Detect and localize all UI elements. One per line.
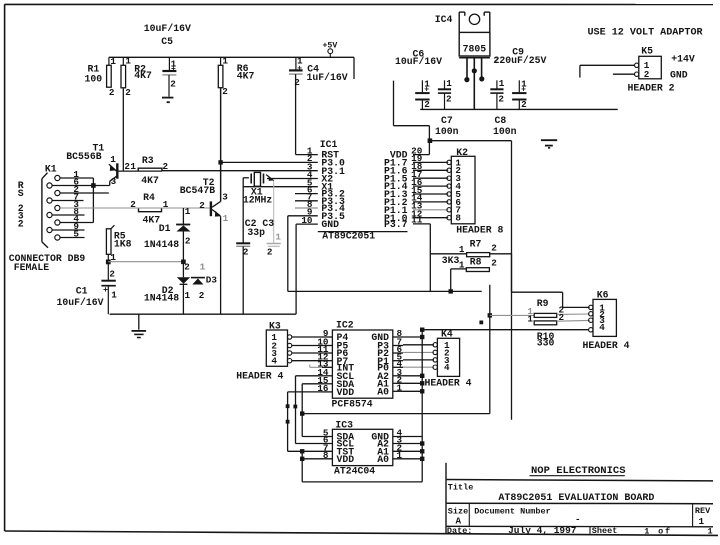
svg-text:Sheet: Sheet	[592, 526, 618, 536]
svg-text:4: 4	[444, 362, 450, 373]
svg-text:2: 2	[109, 268, 115, 279]
svg-text:Title: Title	[448, 482, 474, 492]
svg-text:1uF/16V: 1uF/16V	[307, 72, 348, 83]
svg-text:S: S	[18, 188, 24, 199]
svg-text:2: 2	[109, 87, 115, 98]
svg-text:10uF/16V: 10uF/16V	[395, 56, 442, 67]
svg-text:+: +	[171, 65, 176, 74]
svg-text:+: +	[521, 86, 526, 95]
svg-text:FEMALE: FEMALE	[14, 262, 49, 273]
svg-text:1: 1	[223, 213, 229, 224]
svg-text:R3: R3	[142, 155, 154, 166]
svg-text:100n: 100n	[435, 126, 459, 137]
svg-text:33p: 33p	[247, 227, 265, 238]
svg-text:1: 1	[125, 56, 131, 67]
svg-text:HEADER 4: HEADER 4	[236, 370, 283, 381]
svg-text:3K3: 3K3	[442, 255, 460, 266]
svg-text:1N4148: 1N4148	[144, 293, 179, 304]
svg-text:1: 1	[699, 516, 705, 527]
svg-text:2: 2	[491, 257, 497, 268]
svg-text:4: 4	[599, 322, 605, 333]
svg-text:3: 3	[111, 176, 117, 187]
svg-text:July 4, 1997: July 4, 1997	[508, 525, 577, 536]
svg-text:1: 1	[163, 199, 169, 210]
svg-text:2: 2	[424, 99, 430, 110]
svg-text:100n: 100n	[493, 126, 517, 137]
svg-text:HEADER 2: HEADER 2	[628, 83, 675, 94]
svg-text:2: 2	[125, 87, 131, 98]
svg-text:2: 2	[644, 69, 650, 80]
svg-text:4K7: 4K7	[134, 70, 152, 81]
svg-text:220uF/25V: 220uF/25V	[494, 55, 547, 66]
svg-text:2: 2	[222, 86, 228, 97]
svg-text:HEADER 4: HEADER 4	[425, 377, 472, 388]
svg-text:1: 1	[200, 261, 206, 272]
svg-text:Document Number: Document Number	[474, 506, 551, 516]
svg-text:BC547B: BC547B	[180, 185, 215, 196]
svg-text:PCF8574: PCF8574	[332, 399, 373, 410]
svg-text:R9: R9	[537, 298, 549, 309]
svg-text:R4: R4	[143, 192, 155, 203]
svg-text:2: 2	[521, 99, 527, 110]
svg-text:P3.7: P3.7	[384, 219, 408, 230]
svg-text:VDD: VDD	[337, 387, 355, 398]
svg-text:12MHz: 12MHz	[243, 195, 273, 206]
svg-text:7805: 7805	[463, 44, 487, 55]
svg-text:AT89C2051 EVALUATION BOARD: AT89C2051 EVALUATION BOARD	[498, 493, 654, 504]
svg-text:1 of: 1 of	[644, 526, 672, 536]
svg-text:2: 2	[130, 199, 136, 210]
svg-text:1: 1	[446, 78, 452, 89]
svg-text:-: -	[575, 514, 581, 525]
svg-text:IC1: IC1	[320, 139, 338, 150]
svg-text:2: 2	[243, 247, 249, 258]
svg-text:10uF/16V: 10uF/16V	[57, 297, 104, 308]
svg-text:2: 2	[163, 161, 169, 172]
svg-text:K3: K3	[269, 321, 281, 332]
svg-text:100: 100	[85, 74, 103, 85]
svg-text:K4: K4	[441, 329, 453, 340]
svg-text:VDD: VDD	[337, 454, 355, 465]
svg-text:A: A	[456, 515, 462, 526]
svg-text:C1: C1	[76, 286, 88, 297]
svg-text:R7: R7	[470, 238, 482, 249]
svg-text:2: 2	[491, 243, 497, 254]
svg-text:1: 1	[222, 56, 228, 67]
svg-text:GND: GND	[670, 70, 688, 81]
svg-text:REV: REV	[695, 506, 711, 516]
svg-text:2: 2	[184, 261, 190, 272]
svg-text:A0: A0	[377, 454, 389, 465]
svg-text:1K8: 1K8	[114, 238, 132, 249]
svg-text:2: 2	[267, 247, 273, 258]
svg-text:C7: C7	[441, 115, 453, 126]
svg-text:2: 2	[199, 200, 205, 211]
svg-text:1: 1	[111, 290, 117, 301]
svg-text:K6: K6	[597, 290, 609, 301]
svg-text:1: 1	[275, 231, 281, 242]
svg-text:C5: C5	[161, 36, 173, 47]
svg-text:HEADER 4: HEADER 4	[583, 340, 630, 351]
svg-text:2: 2	[18, 218, 24, 229]
svg-text:1: 1	[185, 290, 191, 301]
svg-text:3: 3	[222, 192, 228, 203]
svg-text:2: 2	[170, 79, 176, 90]
svg-text:1: 1	[459, 259, 465, 270]
svg-text:GND: GND	[321, 219, 339, 230]
svg-text:2: 2	[446, 93, 452, 104]
svg-text:1: 1	[527, 314, 533, 325]
svg-text:2: 2	[185, 236, 191, 247]
svg-text:D1: D1	[159, 223, 171, 234]
svg-text:A0: A0	[377, 386, 389, 397]
svg-text:4K7: 4K7	[143, 214, 161, 225]
svg-text:C8: C8	[495, 115, 507, 126]
svg-text:+: +	[103, 285, 108, 295]
svg-text:4K7: 4K7	[141, 175, 159, 186]
svg-text:1: 1	[708, 526, 713, 536]
svg-text:IC2: IC2	[336, 319, 354, 330]
svg-text:2: 2	[199, 290, 205, 301]
svg-text:AT24C04: AT24C04	[334, 465, 375, 476]
svg-text:330: 330	[537, 338, 555, 349]
svg-text:1: 1	[185, 206, 191, 217]
svg-text:1: 1	[110, 56, 116, 67]
svg-text:R8: R8	[470, 257, 482, 268]
svg-text:IC4: IC4	[435, 14, 453, 25]
svg-text:+5V: +5V	[323, 42, 338, 51]
svg-text:10uF/16V: 10uF/16V	[144, 23, 191, 34]
svg-text:2: 2	[559, 312, 565, 323]
svg-text:1N4148: 1N4148	[144, 239, 179, 250]
svg-text:2: 2	[498, 93, 504, 104]
svg-text:AT89C2051: AT89C2051	[322, 231, 375, 242]
svg-text:4: 4	[271, 356, 277, 367]
svg-text:BC556B: BC556B	[66, 151, 101, 162]
svg-text:4K7: 4K7	[237, 71, 255, 82]
svg-text:+14V: +14V	[671, 54, 695, 65]
svg-text:K5: K5	[641, 46, 653, 57]
svg-text:HEADER 8: HEADER 8	[456, 224, 503, 235]
svg-text:IC3: IC3	[335, 420, 353, 431]
svg-text:8: 8	[455, 213, 461, 224]
svg-text:+: +	[297, 64, 302, 73]
svg-text:1: 1	[499, 78, 505, 89]
svg-text:+: +	[424, 86, 429, 95]
svg-text:USE 12 VOLT ADAPTOR: USE 12 VOLT ADAPTOR	[588, 28, 704, 39]
svg-text:Date:: Date:	[447, 526, 473, 536]
svg-text:1: 1	[110, 154, 116, 165]
svg-text:2: 2	[294, 77, 300, 88]
svg-text:1: 1	[130, 161, 136, 172]
svg-text:1: 1	[459, 244, 465, 255]
svg-text:D3: D3	[206, 275, 218, 286]
